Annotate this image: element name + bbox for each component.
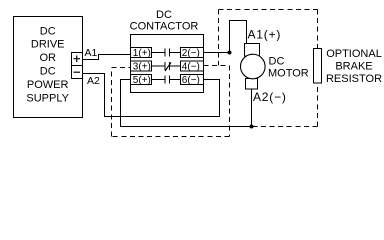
- svg-text:A1: A1: [85, 47, 98, 59]
- svg-text:DC: DC: [40, 25, 56, 37]
- svg-text:6(−): 6(−): [182, 75, 200, 86]
- svg-text:A2(−): A2(−): [253, 90, 287, 104]
- svg-text:1(+): 1(+): [133, 48, 151, 59]
- svg-text:BRAKE: BRAKE: [335, 61, 372, 73]
- svg-text:OPTIONAL: OPTIONAL: [326, 48, 382, 60]
- svg-text:A2: A2: [87, 75, 100, 87]
- svg-text:CONTACTOR: CONTACTOR: [130, 20, 199, 32]
- svg-text:MOTOR: MOTOR: [268, 68, 309, 80]
- svg-text:5(+): 5(+): [133, 75, 151, 86]
- svg-text:DRIVE: DRIVE: [31, 39, 65, 51]
- svg-text:OR: OR: [39, 52, 56, 64]
- svg-text:DC: DC: [40, 66, 56, 78]
- svg-text:4(−): 4(−): [182, 62, 200, 73]
- svg-text:DC: DC: [156, 9, 172, 21]
- svg-text:POWER: POWER: [27, 79, 69, 91]
- svg-text:RESISTOR: RESISTOR: [326, 73, 382, 85]
- svg-text:2(−): 2(−): [182, 48, 200, 59]
- svg-text:SUPPLY: SUPPLY: [26, 92, 69, 104]
- svg-text:A1(+): A1(+): [248, 28, 282, 42]
- svg-text:DC: DC: [269, 55, 285, 67]
- svg-text:3(+): 3(+): [133, 62, 151, 73]
